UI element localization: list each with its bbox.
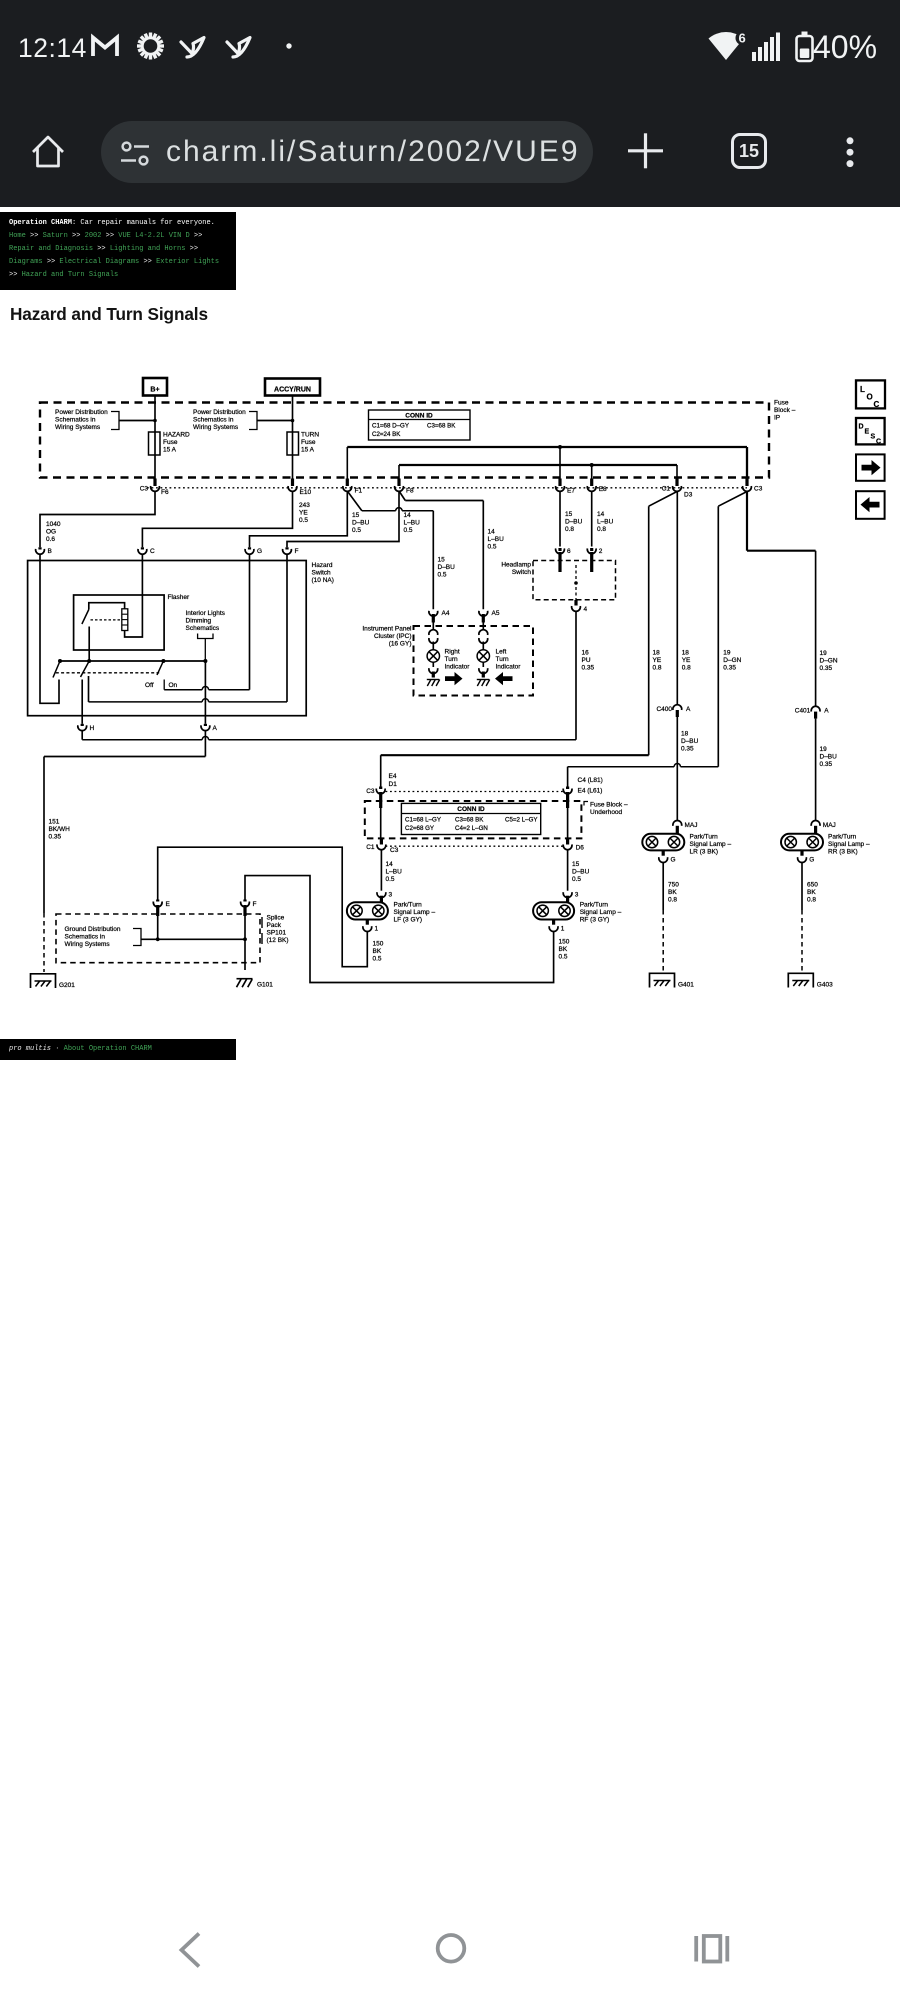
- connector E splice: [156, 900, 159, 902]
- svg-text:Schematics in: Schematics in: [193, 417, 234, 424]
- svg-text:F: F: [295, 548, 299, 555]
- right turn indicator bulb: [427, 650, 439, 662]
- svg-text:0.35: 0.35: [582, 665, 595, 672]
- svg-text:C1=68 L–GY: C1=68 L–GY: [405, 817, 441, 824]
- interior lights bracket: [198, 634, 213, 639]
- wire 16 PU from pin 4: [575, 611, 577, 739]
- svg-text:0.35: 0.35: [723, 665, 736, 672]
- svg-text:E: E: [166, 901, 171, 908]
- android status bar and chrome toolbar: [0, 0, 900, 207]
- wire bus to F1: [346, 447, 348, 479]
- switch contact dashed line: [56, 672, 159, 674]
- connector 1 RF: [552, 920, 555, 925]
- svg-text:CONN ID: CONN ID: [405, 413, 433, 420]
- svg-text:15 A: 15 A: [163, 447, 177, 454]
- wire 150 BK LF to splice pack E: [158, 847, 368, 967]
- switch blade Off: [157, 661, 163, 675]
- connector E7: [558, 479, 561, 487]
- svg-text:(12 BK): (12 BK): [267, 937, 289, 944]
- next arrow box: [856, 454, 885, 480]
- svg-text:BK: BK: [373, 948, 382, 955]
- prev arrow box: [856, 491, 885, 519]
- switch blade left: [53, 661, 60, 678]
- dashed wire to G201: [43, 913, 45, 972]
- svg-text:BK/WH: BK/WH: [49, 826, 71, 833]
- svg-text:Interior Lights: Interior Lights: [186, 610, 226, 617]
- bracket 1: [111, 412, 119, 430]
- svg-text:LR (3 BK): LR (3 BK): [690, 849, 719, 856]
- home button: [438, 1935, 465, 1962]
- svg-text:YE: YE: [653, 657, 662, 664]
- svg-text:0.8: 0.8: [807, 897, 816, 904]
- ground G401: [650, 973, 675, 987]
- splice pack SP101 dashed box: [56, 914, 260, 963]
- svg-text:C2=24 BK: C2=24 BK: [372, 431, 401, 438]
- svg-text:Cluster (IPC): Cluster (IPC): [374, 633, 412, 640]
- svg-text:Indicator: Indicator: [445, 664, 471, 671]
- svg-text:Fuse: Fuse: [301, 439, 316, 446]
- svg-text:Switch: Switch: [512, 569, 532, 576]
- svg-text:E7: E7: [567, 488, 575, 495]
- On contact bracket: [163, 680, 165, 690]
- svg-text:C400: C400: [656, 706, 672, 713]
- connector 3 RF: [563, 892, 572, 897]
- svg-text:0.5: 0.5: [559, 954, 568, 961]
- flasher internal top wire: [89, 603, 125, 610]
- svg-text:E4: E4: [389, 773, 397, 780]
- wire B to switch contact: [40, 554, 59, 703]
- svg-text:C1: C1: [662, 486, 671, 493]
- wire On contact to G: [164, 689, 202, 691]
- svg-text:IP: IP: [774, 415, 780, 422]
- wire 150 BK RF to splice pack F: [245, 876, 554, 983]
- wire E7 to headlamp switch pin 6: [559, 492, 561, 547]
- wire D3 18 YE to C400: [676, 492, 678, 705]
- connector C: [141, 547, 144, 549]
- hazard switch outer box: [28, 561, 307, 716]
- svg-text:C: C: [874, 400, 880, 409]
- svg-text:151: 151: [49, 819, 60, 826]
- svg-text:L: L: [860, 385, 865, 394]
- svg-text:0.5: 0.5: [352, 527, 361, 534]
- svg-text:Ground Distribution: Ground Distribution: [65, 926, 121, 933]
- IPC entry stub A5: [482, 614, 485, 623]
- svg-text:G: G: [257, 548, 262, 555]
- svg-text:150: 150: [373, 941, 384, 948]
- svg-text:Wiring Systems: Wiring Systems: [55, 424, 101, 431]
- svg-text:Schematics in: Schematics in: [55, 417, 96, 424]
- svg-text:Fuse: Fuse: [163, 439, 178, 446]
- bracket 2: [249, 412, 257, 430]
- svg-text:3: 3: [389, 892, 393, 899]
- svg-text:C5=2 L–GY: C5=2 L–GY: [505, 817, 538, 824]
- connector A5: [479, 611, 488, 616]
- LOC box: [856, 380, 885, 408]
- svg-text:F8: F8: [406, 488, 414, 495]
- svg-text:(16 GY): (16 GY): [389, 641, 412, 648]
- svg-text:Instrument Panel: Instrument Panel: [362, 626, 412, 633]
- svg-text:Signal Lamp –: Signal Lamp –: [690, 841, 732, 848]
- svg-text:D–BU: D–BU: [820, 754, 838, 761]
- ground distribution bracket: [133, 929, 141, 946]
- svg-text:H: H: [90, 725, 95, 732]
- footer bar: [0, 1039, 236, 1060]
- connector C1/C3 underhood: [380, 839, 383, 845]
- svg-text:14: 14: [404, 512, 412, 519]
- connector C3 right: [745, 479, 748, 487]
- svg-text:Fuse Block –: Fuse Block –: [590, 802, 628, 809]
- svg-text:750: 750: [668, 882, 679, 889]
- CONN ID box IP: [369, 410, 471, 440]
- wire 650 BK to G403: [801, 862, 803, 910]
- svg-text:0.8: 0.8: [682, 665, 691, 672]
- svg-text:Schematics: Schematics: [186, 625, 220, 632]
- wire bracket2 to ACCY wire: [257, 420, 293, 422]
- svg-text:0.8: 0.8: [668, 897, 677, 904]
- svg-text:1: 1: [375, 926, 379, 933]
- battery icon: [802, 32, 808, 36]
- svg-text:0.5: 0.5: [373, 956, 382, 963]
- svg-text:F: F: [253, 901, 257, 908]
- wire 750 BK to G401: [662, 862, 664, 910]
- svg-text:S: S: [871, 434, 876, 441]
- wire bus to F8: [398, 465, 400, 479]
- svg-text:19: 19: [820, 650, 828, 657]
- notification bird icon 2: [227, 38, 250, 58]
- flasher output wire: [88, 627, 90, 662]
- connector C3/F6: [153, 479, 156, 487]
- svg-text:A: A: [213, 725, 218, 732]
- svg-text:D: D: [859, 424, 864, 431]
- svg-text:C3: C3: [754, 486, 763, 493]
- headlamp switch dashed box: [533, 561, 616, 600]
- svg-text:G101: G101: [257, 982, 273, 989]
- svg-text:Park/Turn: Park/Turn: [394, 902, 423, 909]
- svg-text:Off: Off: [145, 682, 154, 689]
- svg-text:0.8: 0.8: [565, 526, 574, 533]
- hazard switch junction bus: [60, 660, 205, 662]
- back button: [182, 1934, 200, 1967]
- wire bus to C3 right: [746, 447, 748, 479]
- svg-text:On: On: [169, 682, 178, 689]
- svg-text:Park/Turn: Park/Turn: [690, 834, 719, 841]
- connector B: [38, 547, 41, 549]
- IPC internal ground: [427, 680, 431, 687]
- connector 2: [590, 548, 593, 551]
- svg-text:D1: D1: [389, 781, 398, 788]
- instrument panel cluster IPC dashed box: [414, 626, 534, 696]
- svg-text:C401: C401: [795, 708, 811, 715]
- flasher switch blade: [82, 610, 89, 625]
- svg-text:0.5: 0.5: [299, 517, 308, 524]
- recents button: [696, 1936, 727, 1962]
- svg-text:0.5: 0.5: [438, 572, 447, 579]
- svg-text:L–BU: L–BU: [404, 520, 421, 527]
- svg-text:14: 14: [597, 511, 605, 518]
- svg-text:15: 15: [352, 512, 360, 519]
- svg-text:19: 19: [723, 650, 731, 657]
- svg-text:LF (3 GY): LF (3 GY): [394, 917, 423, 924]
- left turn arrow: [495, 672, 513, 685]
- wire A from junction: [204, 661, 206, 724]
- connector G: [248, 547, 251, 549]
- dotted connector line underhood bottom: [386, 845, 564, 847]
- svg-text:15: 15: [572, 861, 580, 868]
- svg-text:MAJ: MAJ: [685, 822, 698, 829]
- svg-text:A4: A4: [442, 610, 450, 617]
- svg-text:1: 1: [561, 926, 565, 933]
- dotted connector line underhood top: [386, 791, 564, 793]
- svg-text:B: B: [48, 548, 52, 555]
- connector 6: [558, 548, 561, 551]
- svg-text:18: 18: [653, 650, 661, 657]
- connector line IP dotted: [147, 487, 747, 489]
- power node ACCY/RUN: [265, 379, 320, 396]
- svg-text:6: 6: [567, 548, 571, 555]
- stub C4/E4 into box: [566, 792, 569, 808]
- svg-text:Headlamp: Headlamp: [501, 562, 531, 569]
- fuse block underhood dashed box: [365, 801, 582, 838]
- wire H from blade: [81, 680, 83, 724]
- flasher resistor: [122, 609, 128, 631]
- svg-text:G201: G201: [59, 982, 75, 989]
- new tab plus icon: [628, 133, 663, 168]
- park/turn signal lamp RF: [566, 896, 569, 903]
- connector F splice: [243, 900, 246, 902]
- svg-text:0.5: 0.5: [386, 876, 395, 883]
- svg-text:C3: C3: [140, 486, 149, 493]
- connector E8: [590, 479, 593, 487]
- svg-text:Fuse: Fuse: [774, 400, 789, 407]
- gmail icon: [93, 38, 117, 57]
- wire F8 14 L-BU branch to A5: [399, 491, 405, 501]
- svg-text:15 A: 15 A: [301, 447, 315, 454]
- svg-text:C1: C1: [366, 844, 375, 851]
- connector 4: [574, 600, 577, 606]
- svg-text:1040: 1040: [46, 521, 61, 528]
- wire C3 19 D-GN right to C401: [746, 492, 748, 551]
- svg-text:Wiring Systems: Wiring Systems: [193, 424, 239, 431]
- svg-text:E10: E10: [300, 489, 312, 496]
- switch blade middle: [81, 661, 90, 677]
- svg-text:0.35: 0.35: [681, 746, 694, 753]
- svg-text:Dimming: Dimming: [186, 618, 212, 625]
- svg-text:D3: D3: [684, 492, 693, 499]
- wire F8 14 L-BU branch to F: [287, 492, 399, 547]
- svg-text:D–BU: D–BU: [438, 564, 456, 571]
- junction dot E8 on lower bus: [590, 463, 594, 467]
- svg-text:243: 243: [299, 502, 310, 509]
- svg-text:Flasher: Flasher: [168, 594, 191, 601]
- svg-text:YE: YE: [682, 657, 691, 664]
- stub E4/D1 into box: [379, 792, 382, 808]
- wire ACCY/RUN to fuse: [292, 396, 294, 485]
- svg-text:19: 19: [820, 746, 828, 753]
- IPC inline connector pair: [429, 630, 438, 635]
- connector C4(L81)/E4(L61): [566, 787, 569, 790]
- notification bird icon 1: [181, 38, 204, 58]
- svg-text:Turn: Turn: [496, 656, 510, 663]
- svg-text:E8: E8: [599, 486, 607, 493]
- svg-text:E: E: [865, 429, 870, 436]
- power node B+: [143, 378, 167, 396]
- svg-text:Signal Lamp –: Signal Lamp –: [828, 841, 870, 848]
- svg-text:D6: D6: [576, 845, 585, 852]
- connector F: [285, 547, 288, 549]
- svg-text:14: 14: [386, 861, 394, 868]
- svg-text:CONN ID: CONN ID: [457, 806, 485, 813]
- connector MAJ LR: [673, 820, 682, 825]
- svg-text:A: A: [824, 708, 829, 715]
- svg-text:OG: OG: [46, 529, 56, 536]
- svg-text:Wiring Systems: Wiring Systems: [65, 941, 111, 948]
- connector G RR: [800, 850, 803, 855]
- svg-text:TURN: TURN: [301, 432, 319, 439]
- svg-text:Right: Right: [445, 649, 460, 656]
- DESC box: [856, 418, 885, 444]
- svg-text:2: 2: [599, 548, 603, 555]
- home icon: [33, 137, 63, 166]
- svg-text:ACCY/RUN: ACCY/RUN: [274, 387, 311, 394]
- svg-text:18: 18: [681, 731, 689, 738]
- svg-text:(10 NA): (10 NA): [312, 577, 334, 584]
- svg-text:0.35: 0.35: [820, 761, 833, 768]
- wire switch contact to F: [89, 701, 203, 703]
- svg-text:18: 18: [682, 650, 690, 657]
- fuse TURN 15A: [287, 432, 299, 455]
- left turn indicator bulb: [477, 650, 489, 662]
- wire 14 L-BU to LF lamp: [380, 850, 382, 890]
- svg-text:Indicator: Indicator: [496, 664, 522, 671]
- svg-text:D–GN: D–GN: [723, 657, 741, 664]
- svg-text:Park/Turn: Park/Turn: [580, 902, 609, 909]
- weather sun icon: [137, 33, 164, 60]
- svg-text:Hazard: Hazard: [312, 562, 333, 569]
- svg-text:650: 650: [807, 882, 818, 889]
- svg-text:C4 (L81): C4 (L81): [578, 777, 603, 784]
- svg-text:D–BU: D–BU: [565, 519, 583, 526]
- bus bar lower inside fuse block: [399, 464, 677, 466]
- svg-text:0.8: 0.8: [597, 526, 606, 533]
- svg-text:C3: C3: [366, 788, 375, 795]
- fuse HAZARD 15A: [149, 432, 161, 455]
- wire middle contact down: [88, 676, 90, 702]
- connector C1/D3: [675, 479, 678, 487]
- svg-text:PU: PU: [582, 657, 591, 664]
- svg-text:4: 4: [584, 606, 588, 613]
- label Fuse Block - Underhood: [584, 802, 588, 806]
- svg-text:E4 (L61): E4 (L61): [578, 788, 603, 795]
- fuse block IP dashed box: [40, 403, 769, 478]
- svg-text:C3=68 BK: C3=68 BK: [427, 423, 456, 430]
- svg-text:Splice: Splice: [267, 915, 285, 922]
- svg-text:L–BU: L–BU: [386, 869, 403, 876]
- svg-text:0.35: 0.35: [49, 834, 62, 841]
- connector E10: [291, 479, 294, 487]
- wire 18 YE to fuse block underhood E4/D1: [381, 754, 649, 756]
- svg-text:G403: G403: [817, 982, 833, 989]
- bus bar upper inside fuse block: [347, 446, 747, 448]
- svg-text:Block –: Block –: [774, 407, 796, 414]
- stub pin 2 into headlamp switch: [590, 552, 593, 572]
- svg-text:Schematics in: Schematics in: [65, 934, 106, 941]
- wire C into flasher resistor: [125, 554, 143, 637]
- svg-text:C3=68 BK: C3=68 BK: [455, 817, 484, 824]
- svg-text:L–BU: L–BU: [597, 519, 614, 526]
- connector E4/D1: [379, 787, 382, 790]
- connector C401: [811, 706, 820, 711]
- svg-text:D–GN: D–GN: [820, 658, 838, 665]
- svg-text:D–BU: D–BU: [352, 520, 370, 527]
- svg-text:A5: A5: [492, 610, 500, 617]
- svg-text:Left: Left: [496, 649, 507, 656]
- wire bracket1 to B+ wire: [119, 420, 155, 422]
- wire A 151 BK/WH to G201: [204, 731, 206, 757]
- svg-text:Switch: Switch: [312, 570, 332, 577]
- svg-text:SP101: SP101: [267, 930, 287, 937]
- connector H: [81, 724, 84, 726]
- svg-text:YE: YE: [299, 510, 308, 517]
- IPC inline connector pair: [479, 630, 488, 635]
- wire bus to E7: [559, 447, 561, 479]
- svg-text:RR (3 BK): RR (3 BK): [828, 849, 858, 856]
- IPC entry stub A4: [432, 614, 435, 623]
- wire E8 to headlamp switch pin 2: [591, 492, 593, 547]
- svg-text:O: O: [867, 393, 873, 402]
- svg-text:0.6: 0.6: [46, 536, 55, 543]
- park/turn signal lamp LF: [380, 896, 383, 903]
- svg-text:0.5: 0.5: [488, 544, 497, 551]
- connector A: [204, 724, 207, 726]
- svg-text:G401: G401: [678, 982, 694, 989]
- svg-text:0.5: 0.5: [572, 876, 581, 883]
- wire bus to E8: [591, 465, 593, 479]
- svg-text:0.5: 0.5: [404, 527, 413, 534]
- svg-text:C: C: [150, 548, 155, 555]
- wire H to hazard switch feed 16 PU junction: [81, 731, 83, 740]
- svg-text:Park/Turn: Park/Turn: [828, 834, 857, 841]
- svg-text:BK: BK: [559, 946, 568, 953]
- wire B+ to fuse: [154, 396, 156, 485]
- svg-text:RF (3 GY): RF (3 GY): [580, 917, 610, 924]
- wire C3/F6 to B 1040 OG: [40, 492, 155, 547]
- svg-text:BK: BK: [807, 889, 816, 896]
- CONN ID box underhood: [401, 803, 540, 834]
- ground G403: [788, 973, 813, 987]
- connector D6 underhood: [566, 839, 569, 845]
- flasher box: [74, 595, 165, 650]
- splice pack internal wire: [156, 905, 159, 916]
- junction dot E7 on upper bus: [558, 445, 562, 449]
- wire 19 D-GN to connector C4/E4: [568, 766, 675, 768]
- svg-text:C2=68 GY: C2=68 GY: [405, 825, 434, 832]
- label Splice Pack SP101: [261, 917, 263, 928]
- wire 15 D-BU to RF lamp: [567, 850, 569, 890]
- connector MAJ RR: [811, 820, 820, 825]
- svg-text:Turn: Turn: [445, 656, 459, 663]
- svg-text:L–BU: L–BU: [488, 536, 505, 543]
- svg-text:Power Distribution: Power Distribution: [193, 409, 246, 416]
- headlamp switch internal dashed wire: [575, 565, 577, 600]
- svg-text:D–BU: D–BU: [681, 738, 699, 745]
- site settings tune icon: [121, 143, 149, 165]
- svg-text:150: 150: [559, 939, 570, 946]
- wire E10 to C 243 YE: [142, 492, 292, 547]
- svg-text:3: 3: [575, 892, 579, 899]
- svg-text:F6: F6: [161, 489, 169, 496]
- wire C1 18 YE left: [649, 492, 677, 507]
- svg-text:0.8: 0.8: [653, 665, 662, 672]
